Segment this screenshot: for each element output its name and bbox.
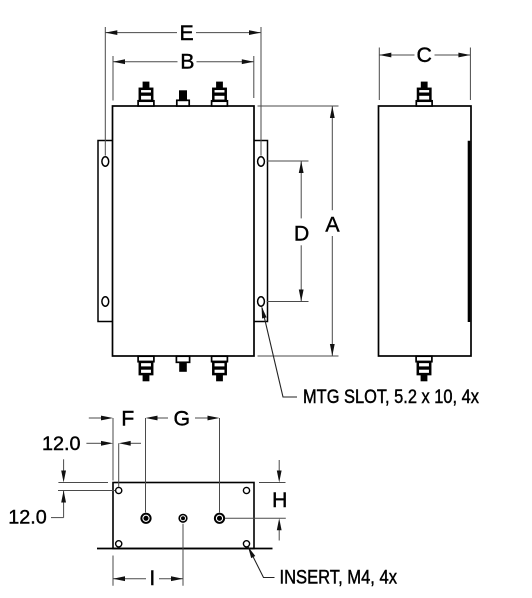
svg-text:A: A (325, 213, 340, 237)
svg-text:G: G (174, 407, 191, 431)
svg-text:INSERT, M4, 4x: INSERT, M4, 4x (280, 568, 398, 589)
svg-text:H: H (272, 488, 287, 512)
svg-text:I: I (149, 566, 155, 590)
svg-text:12.0: 12.0 (42, 433, 81, 455)
svg-text:B: B (180, 50, 194, 74)
svg-text:12.0: 12.0 (8, 507, 47, 529)
svg-text:C: C (417, 43, 432, 67)
svg-text:E: E (179, 21, 193, 45)
svg-text:F: F (121, 407, 134, 431)
svg-text:D: D (294, 222, 309, 246)
svg-text:MTG SLOT, 5.2 x 10, 4x: MTG SLOT, 5.2 x 10, 4x (303, 387, 479, 408)
